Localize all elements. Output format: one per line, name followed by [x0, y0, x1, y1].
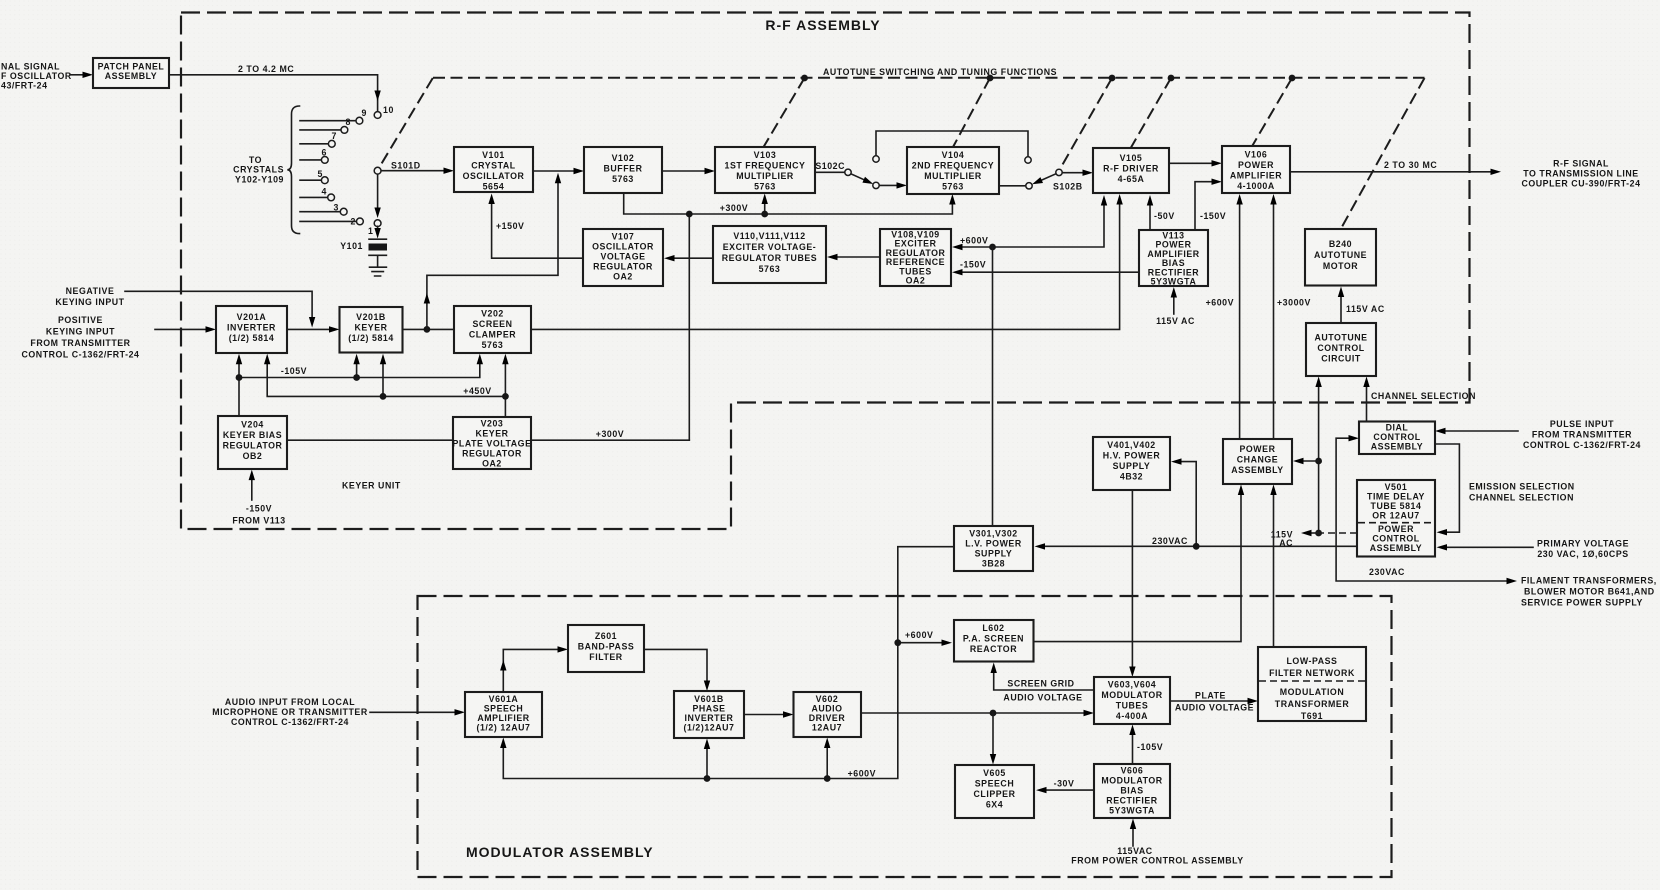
svg-text:S102C: S102C — [815, 161, 845, 171]
svg-text:KEYER: KEYER — [475, 429, 508, 439]
wire V201A to V201B — [287, 328, 331, 330]
svg-text:FROM TRANSMITTER: FROM TRANSMITTER — [1532, 430, 1632, 440]
contact lines to crystals — [300, 121, 356, 222]
svg-text:ASSEMBLY: ASSEMBLY — [1370, 543, 1422, 553]
svg-text:PHASE: PHASE — [692, 704, 725, 714]
svg-text:OSCILLATOR: OSCILLATOR — [592, 242, 654, 252]
svg-text:4: 4 — [322, 187, 327, 197]
svg-text:AMPLIFIER: AMPLIFIER — [1230, 171, 1282, 181]
svg-text:V203: V203 — [481, 419, 504, 429]
svg-text:8: 8 — [346, 117, 351, 127]
wire V601A to Z601 — [503, 649, 559, 692]
L602 P.A. screen reactor box — [954, 620, 1034, 662]
wire V204 to V203 — [287, 439, 453, 441]
svg-text:9: 9 — [362, 108, 367, 118]
svg-text:POSITIVE: POSITIVE — [58, 315, 103, 325]
svg-text:4-400A: 4-400A — [1116, 711, 1148, 721]
svg-text:CHANNEL SELECTION: CHANNEL SELECTION — [1371, 391, 1476, 401]
svg-text:AUDIO VOLTAGE: AUDIO VOLTAGE — [1003, 693, 1082, 703]
svg-text:KEYER: KEYER — [354, 323, 387, 333]
svg-text:5654: 5654 — [483, 182, 505, 192]
V104 2nd frequency multiplier box — [907, 147, 999, 194]
svg-text:CONTROL C-1362/FRT-24: CONTROL C-1362/FRT-24 — [22, 350, 140, 360]
svg-text:T691: T691 — [1301, 711, 1323, 721]
svg-text:L602: L602 — [982, 623, 1004, 633]
svg-text:CHANNEL SELECTION: CHANNEL SELECTION — [1469, 493, 1574, 503]
svg-text:SPEECH: SPEECH — [484, 704, 523, 714]
svg-text:3: 3 — [334, 203, 339, 213]
svg-text:FILAMENT TRANSFORMERS,: FILAMENT TRANSFORMERS, — [1521, 576, 1657, 586]
svg-text:230 VAC, 1Ø,60CPS: 230 VAC, 1Ø,60CPS — [1537, 549, 1628, 559]
svg-text:OA2: OA2 — [613, 272, 633, 282]
switch arm to contact 1 — [377, 174, 379, 214]
svg-text:PULSE INPUT: PULSE INPUT — [1550, 419, 1614, 429]
svg-text:+300V: +300V — [720, 203, 748, 213]
V110,V111,V112 exciter voltage-regulator tubes box — [713, 226, 826, 283]
svg-text:REGULATOR: REGULATOR — [223, 441, 283, 451]
svg-text:OB2: OB2 — [243, 451, 263, 461]
svg-text:3B28: 3B28 — [982, 559, 1005, 569]
wire screen grid audio voltage — [994, 671, 1094, 690]
svg-text:43/FRT-24: 43/FRT-24 — [1, 81, 48, 91]
svg-text:5763: 5763 — [942, 182, 964, 192]
svg-text:AUTOTUNE: AUTOTUNE — [1314, 250, 1367, 260]
svg-text:TIME DELAY: TIME DELAY — [1367, 492, 1425, 502]
wire emission/channel selection loop — [1435, 444, 1459, 532]
svg-text:SCREEN: SCREEN — [473, 319, 513, 329]
svg-text:FROM POWER CONTROL ASSEMBLY: FROM POWER CONTROL ASSEMBLY — [1071, 856, 1243, 866]
svg-text:BLOWER MOTOR B641,AND: BLOWER MOTOR B641,AND — [1524, 587, 1655, 597]
svg-text:KEYER UNIT: KEYER UNIT — [342, 481, 401, 491]
svg-text:FROM V113: FROM V113 — [232, 516, 285, 526]
svg-text:+600V: +600V — [905, 630, 933, 640]
autotune diagonal to B240 — [1341, 78, 1425, 229]
wire +600V power change to V106 — [1239, 203, 1241, 440]
svg-text:SERVICE POWER SUPPLY: SERVICE POWER SUPPLY — [1521, 598, 1643, 608]
svg-text:PRIMARY VOLTAGE: PRIMARY VOLTAGE — [1537, 539, 1629, 549]
low-pass filter network / modulation transformer box — [1258, 647, 1366, 721]
wire plate audio voltage to modulation transformer — [1170, 700, 1249, 702]
svg-text:10: 10 — [383, 105, 394, 115]
wire 115V AC stub to V113 — [1173, 295, 1175, 314]
svg-text:-150V: -150V — [246, 504, 272, 514]
svg-text:BAND-PASS: BAND-PASS — [578, 642, 635, 652]
wire riser modulation transformer to power change — [1273, 493, 1275, 647]
svg-text:R-F SIGNAL: R-F SIGNAL — [1553, 159, 1609, 169]
V105 R-F driver box — [1093, 148, 1169, 193]
svg-text:DIAL: DIAL — [1386, 423, 1409, 433]
svg-text:PLATE: PLATE — [1195, 691, 1226, 701]
svg-text:KEYING INPUT: KEYING INPUT — [55, 297, 124, 307]
svg-text:PATCH PANEL: PATCH PANEL — [98, 62, 165, 72]
svg-text:MULTIPLIER: MULTIPLIER — [736, 171, 794, 181]
svg-text:V104: V104 — [942, 150, 965, 160]
svg-text:V603,V604: V603,V604 — [1108, 680, 1156, 690]
svg-text:MODULATION: MODULATION — [1280, 687, 1344, 697]
svg-text:V201B: V201B — [356, 312, 386, 322]
svg-text:KEYER BIAS: KEYER BIAS — [223, 430, 282, 440]
patch panel assembly box — [93, 58, 169, 88]
wire to speech clipper — [992, 713, 994, 756]
svg-text:(1/2) 5814: (1/2) 5814 — [348, 333, 394, 343]
switch S102B — [999, 169, 1093, 191]
svg-text:V601A: V601A — [489, 694, 519, 704]
svg-text:-150V: -150V — [1200, 211, 1226, 221]
svg-text:REGULATOR: REGULATOR — [593, 262, 653, 272]
V107 oscillator voltage regulator box — [583, 229, 663, 286]
svg-text:CHANGE: CHANGE — [1237, 455, 1278, 465]
svg-text:OA2: OA2 — [906, 276, 926, 286]
V102 buffer box — [584, 147, 662, 193]
wire V108 to V110 — [836, 256, 880, 258]
svg-text:V102: V102 — [612, 153, 635, 163]
R-F assembly dashed border — [181, 13, 1470, 530]
wire -150V stub to V204 — [251, 478, 253, 500]
svg-text:POWER: POWER — [1238, 160, 1274, 170]
wire pulse input to dial control — [1444, 430, 1518, 432]
svg-text:2 TO 4.2 MC: 2 TO 4.2 MC — [238, 64, 294, 74]
svg-text:Y101: Y101 — [340, 241, 363, 251]
svg-text:Z601: Z601 — [595, 631, 617, 641]
wire 2 TO 4.2 MC — [169, 75, 378, 112]
svg-text:V106: V106 — [1245, 150, 1268, 160]
svg-text:B240: B240 — [1329, 239, 1352, 249]
switch S102C — [815, 131, 1031, 189]
wire to V104 — [879, 184, 898, 186]
svg-text:1: 1 — [368, 226, 373, 236]
S101D output wire — [381, 170, 445, 172]
wire negative keying — [125, 291, 312, 320]
svg-text:S101D: S101D — [391, 161, 421, 171]
svg-text:AMPLIFIER: AMPLIFIER — [477, 713, 529, 723]
wire -150V V113 to V108 — [961, 271, 1139, 273]
wire V103 to S102C — [815, 171, 845, 173]
svg-text:TO TRANSMISSION LINE: TO TRANSMISSION LINE — [1523, 169, 1638, 179]
autotune diagonal to V103 — [764, 78, 805, 147]
V601B phase inverter box — [674, 691, 744, 738]
svg-text:5763: 5763 — [482, 340, 504, 350]
autotune control circuit box — [1306, 323, 1376, 376]
node +300V — [686, 211, 693, 218]
svg-text:V204: V204 — [241, 420, 264, 430]
svg-text:+300V: +300V — [596, 429, 624, 439]
svg-text:V201A: V201A — [237, 312, 267, 322]
svg-text:AUDIO: AUDIO — [811, 704, 842, 714]
svg-text:V601B: V601B — [694, 694, 724, 704]
svg-text:SPEECH: SPEECH — [975, 779, 1014, 789]
svg-text:P.A. SCREEN: P.A. SCREEN — [963, 634, 1024, 644]
svg-text:VOLTAGE: VOLTAGE — [600, 252, 645, 262]
wire +150V V107 to V101 — [492, 203, 583, 259]
V606 modulator bias rectifier box — [1094, 764, 1170, 818]
V204 keyer bias regulator box — [218, 416, 287, 469]
wire -105V V606 to V603 — [1132, 733, 1134, 764]
V101 crystal oscillator box — [454, 147, 533, 192]
svg-text:2: 2 — [351, 217, 356, 227]
svg-text:+600V: +600V — [1206, 298, 1234, 308]
svg-text:V501: V501 — [1385, 482, 1408, 492]
svg-text:-105V: -105V — [281, 366, 307, 376]
svg-text:AUTOTUNE: AUTOTUNE — [1314, 333, 1367, 343]
svg-text:MOTOR: MOTOR — [1323, 261, 1358, 271]
V603,V604 modulator tubes box — [1094, 677, 1170, 724]
svg-text:Y102-Y109: Y102-Y109 — [235, 175, 284, 185]
svg-text:AUDIO VOLTAGE: AUDIO VOLTAGE — [1175, 703, 1254, 713]
S102C arm — [851, 174, 869, 182]
svg-text:4-1000A: 4-1000A — [1237, 181, 1275, 191]
wire +450V net — [267, 362, 505, 417]
V103 1st frequency multiplier box — [715, 147, 815, 193]
svg-text:OSCILLATOR: OSCILLATOR — [463, 171, 525, 181]
wire H.V. supply to modulator tubes — [1131, 490, 1133, 669]
svg-text:EMISSION SELECTION: EMISSION SELECTION — [1469, 482, 1575, 492]
svg-text:S102B: S102B — [1053, 182, 1083, 192]
svg-text:(1/2) 5814: (1/2) 5814 — [229, 333, 275, 343]
svg-text:-30V: -30V — [1054, 779, 1075, 789]
svg-text:SUPPLY: SUPPLY — [1113, 461, 1151, 471]
svg-text:TRANSFORMER: TRANSFORMER — [1275, 699, 1350, 709]
svg-text:5Y3WGTA: 5Y3WGTA — [1151, 277, 1197, 287]
svg-text:12AU7: 12AU7 — [812, 723, 842, 733]
svg-text:CONTROL C-1362/FRT-24: CONTROL C-1362/FRT-24 — [1523, 440, 1641, 450]
wire 115VAC dashed stub from power control — [1319, 532, 1357, 534]
S102B arm — [1037, 174, 1056, 183]
V501 time delay / power control assembly box — [1357, 480, 1435, 557]
V108,V109 exciter regulator reference tubes box — [880, 229, 951, 286]
svg-text:F OSCILLATOR: F OSCILLATOR — [1, 71, 72, 81]
power change assembly box — [1223, 439, 1292, 484]
svg-text:TO: TO — [249, 155, 262, 165]
svg-text:POWER: POWER — [1240, 444, 1276, 454]
wire to V105 — [1062, 172, 1084, 174]
svg-text:DRIVER: DRIVER — [809, 713, 846, 723]
V106 power amplifier box — [1222, 146, 1290, 193]
svg-text:V202: V202 — [481, 309, 504, 319]
svg-text:-105V: -105V — [1137, 742, 1163, 752]
wire V202 keyed screen to V105 — [531, 203, 1120, 330]
ground — [370, 267, 387, 276]
svg-text:OR 12AU7: OR 12AU7 — [1372, 511, 1419, 521]
svg-text:MODULATOR: MODULATOR — [1101, 690, 1162, 700]
svg-text:230VAC: 230VAC — [1369, 567, 1405, 577]
wire V101 to V102 — [533, 170, 575, 172]
wire +3000V power change to V106 — [1273, 203, 1275, 440]
svg-text:115V AC: 115V AC — [1156, 316, 1195, 326]
autotune diagonal to V106 — [1253, 78, 1293, 146]
svg-text:BIAS: BIAS — [1120, 786, 1143, 796]
wire V102 to V103 — [662, 170, 706, 172]
V201B keyer box — [340, 307, 403, 353]
wire Z601 to V601B — [644, 649, 707, 682]
svg-text:+600V: +600V — [960, 236, 988, 246]
svg-text:(1/2) 12AU7: (1/2) 12AU7 — [477, 723, 531, 733]
svg-text:INVERTER: INVERTER — [685, 713, 734, 723]
svg-text:(1/2)12AU7: (1/2)12AU7 — [684, 723, 735, 733]
V203 keyer plate voltage regulator box — [453, 417, 531, 469]
autotune diagonal to V104 — [953, 78, 990, 147]
V202 screen clamper box — [454, 306, 531, 353]
svg-text:5: 5 — [318, 169, 323, 179]
wire V201B to V202 — [403, 328, 454, 330]
svg-text:1ST FREQUENCY: 1ST FREQUENCY — [725, 161, 806, 171]
wire V602 to V603 — [861, 712, 1085, 714]
wire V105 to V106 — [1169, 162, 1213, 164]
wire 115V AC autotune control to B240 — [1340, 295, 1342, 323]
wire riser L602 to power change — [1034, 493, 1242, 642]
svg-text:INVERTER: INVERTER — [227, 323, 276, 333]
wire +300V net — [624, 193, 953, 440]
wire R-F output 2 TO 30 MC — [1290, 171, 1492, 173]
svg-text:115VAC: 115VAC — [1117, 846, 1153, 856]
svg-text:KEYING INPUT: KEYING INPUT — [46, 327, 115, 337]
crystal Y101 — [340, 226, 387, 276]
svg-text:+150V: +150V — [496, 221, 524, 231]
svg-text:-50V: -50V — [1154, 211, 1175, 221]
wire V601B to V602 — [744, 714, 785, 716]
svg-text:L.V. POWER: L.V. POWER — [965, 539, 1022, 549]
Z601 band-pass filter box — [568, 625, 644, 672]
V301,V302 L.V. power supply box — [954, 526, 1033, 571]
svg-text:CRYSTAL: CRYSTAL — [471, 161, 515, 171]
svg-text:2ND FREQUENCY: 2ND FREQUENCY — [912, 161, 994, 171]
svg-text:5763: 5763 — [759, 264, 781, 274]
svg-text:EXCITER VOLTAGE-: EXCITER VOLTAGE- — [723, 242, 817, 252]
wire 230VAC bus to supplies — [1044, 462, 1358, 547]
svg-text:MODULATOR ASSEMBLY: MODULATOR ASSEMBLY — [466, 844, 654, 860]
svg-text:4B32: 4B32 — [1120, 472, 1143, 482]
svg-text:V602: V602 — [816, 694, 839, 704]
switch S101D crystal selector — [233, 105, 454, 236]
modulator assembly dashed border — [418, 596, 1392, 877]
svg-text:ASSEMBLY: ASSEMBLY — [105, 71, 157, 81]
svg-text:AUDIO INPUT FROM LOCAL: AUDIO INPUT FROM LOCAL — [225, 697, 355, 707]
wire audio input to V601A — [370, 711, 456, 713]
svg-text:POWER: POWER — [1378, 524, 1414, 534]
autotune dashed bus — [433, 77, 1425, 79]
svg-text:RECTIFIER: RECTIFIER — [1106, 796, 1157, 806]
svg-text:230VAC: 230VAC — [1152, 536, 1188, 546]
svg-text:PLATE VOLTAGE: PLATE VOLTAGE — [453, 439, 532, 449]
svg-text:V101: V101 — [482, 150, 505, 160]
svg-text:MULTIPLIER: MULTIPLIER — [924, 171, 982, 181]
svg-text:CRYSTALS: CRYSTALS — [233, 165, 284, 175]
svg-text:FILTER NETWORK: FILTER NETWORK — [1269, 668, 1355, 678]
svg-text:V103: V103 — [754, 150, 777, 160]
crystals brace — [287, 106, 299, 234]
wire 115VAC stub to V606 — [1132, 827, 1134, 846]
wire power change feed — [1302, 460, 1319, 462]
svg-text:5763: 5763 — [754, 182, 776, 192]
B240 autotune motor box — [1305, 229, 1376, 286]
svg-text:+3000V: +3000V — [1277, 298, 1311, 308]
svg-text:+600V: +600V — [848, 769, 876, 779]
dial control assembly box — [1359, 422, 1435, 455]
svg-text:V606: V606 — [1121, 766, 1144, 776]
svg-text:LOW-PASS: LOW-PASS — [1287, 656, 1338, 666]
node keyed line — [424, 326, 431, 333]
V113 power amplifier bias rectifier box — [1139, 230, 1208, 286]
svg-text:CONTROL: CONTROL — [1317, 343, 1364, 353]
svg-text:V107: V107 — [612, 232, 635, 242]
svg-text:COUPLER CU-390/FRT-24: COUPLER CU-390/FRT-24 — [1521, 179, 1640, 189]
svg-text:REGULATOR: REGULATOR — [462, 449, 522, 459]
svg-text:V301,V302: V301,V302 — [969, 529, 1017, 539]
svg-text:ASSEMBLY: ASSEMBLY — [1371, 442, 1423, 452]
wire V104 to S102B — [999, 185, 1026, 187]
svg-text:6: 6 — [322, 148, 327, 158]
wire +600V from L.V. supply — [992, 247, 994, 526]
wire -50V V113 to V105 — [1149, 204, 1151, 231]
V605 speech clipper box — [955, 765, 1034, 818]
svg-text:R-F DRIVER: R-F DRIVER — [1103, 164, 1159, 174]
wire 115VAC riser to autotune control — [1318, 385, 1320, 533]
svg-text:OA2: OA2 — [482, 459, 502, 469]
wire channel selection riser to autotune control — [1366, 385, 1368, 422]
wire positive keying to V201A — [155, 328, 207, 330]
svg-text:AUTOTUNE SWITCHING AND TUNI: AUTOTUNE SWITCHING AND TUNING FUNCTIONS — [823, 67, 1057, 77]
autotune diagonal to V105 — [1131, 78, 1171, 148]
svg-text:2 TO 30 MC: 2 TO 30 MC — [1384, 160, 1437, 170]
wire V203 +300V out — [531, 439, 689, 441]
svg-text:115V AC: 115V AC — [1346, 304, 1385, 314]
svg-text:R-F ASSEMBLY: R-F ASSEMBLY — [765, 17, 880, 33]
svg-text:REACTOR: REACTOR — [970, 644, 1017, 654]
V401,V402 H.V. power supply box — [1093, 437, 1170, 490]
bypass loop — [876, 131, 1028, 157]
wire -150V V113 to V106 — [1195, 182, 1213, 230]
svg-text:REGULATOR TUBES: REGULATOR TUBES — [722, 253, 817, 263]
svg-text:MICROPHONE OR TRANSMITTER: MICROPHONE OR TRANSMITTER — [212, 707, 368, 717]
V601A speech amplifier box — [465, 692, 542, 737]
wire L.V. +600V to modulator rail — [503, 547, 954, 779]
wire -105V net — [239, 362, 480, 416]
wire +600V to V105 and V108 — [961, 204, 1104, 248]
svg-text:V605: V605 — [983, 768, 1006, 778]
svg-text:V105: V105 — [1120, 153, 1143, 163]
wire -30V V606 to V605 — [1045, 789, 1094, 791]
bus junction dots — [801, 75, 808, 82]
svg-text:MODULATOR: MODULATOR — [1101, 776, 1162, 786]
svg-text:CONTROL C-1362/FRT-24: CONTROL C-1362/FRT-24 — [231, 717, 349, 727]
contact circles — [374, 112, 381, 119]
svg-text:5763: 5763 — [612, 174, 634, 184]
wire dial feed and filament line — [1336, 438, 1508, 581]
wire primary voltage input — [1446, 546, 1534, 548]
svg-text:NEGATIVE: NEGATIVE — [66, 286, 115, 296]
svg-text:ASSEMBLY: ASSEMBLY — [1231, 465, 1283, 475]
svg-text:FROM TRANSMITTER: FROM TRANSMITTER — [30, 338, 130, 348]
svg-text:NAL SIGNAL: NAL SIGNAL — [1, 62, 60, 72]
svg-text:CIRCUIT: CIRCUIT — [1321, 354, 1361, 364]
svg-text:7: 7 — [332, 131, 337, 141]
svg-text:H.V. POWER: H.V. POWER — [1103, 451, 1161, 461]
svg-text:6X4: 6X4 — [986, 800, 1003, 810]
autotune diagonal to S102B — [1060, 78, 1112, 169]
svg-text:TUBES: TUBES — [1116, 701, 1149, 711]
svg-text:SCREEN GRID: SCREEN GRID — [1007, 679, 1074, 689]
svg-text:CONTROL: CONTROL — [1373, 432, 1420, 442]
svg-text:-150V: -150V — [960, 260, 986, 270]
svg-text:5Y3WGTA: 5Y3WGTA — [1109, 806, 1155, 816]
svg-text:CLIPPER: CLIPPER — [974, 789, 1016, 799]
wire input to patch panel — [70, 74, 84, 76]
svg-text:TUBE 5814: TUBE 5814 — [1371, 501, 1422, 511]
V201A inverter box — [216, 306, 287, 353]
svg-text:V110,V111,V112: V110,V111,V112 — [733, 231, 805, 241]
svg-text:+450V: +450V — [463, 386, 491, 396]
autotune diagonal to S101D — [378, 78, 433, 169]
svg-text:CONTROL: CONTROL — [1372, 534, 1419, 544]
